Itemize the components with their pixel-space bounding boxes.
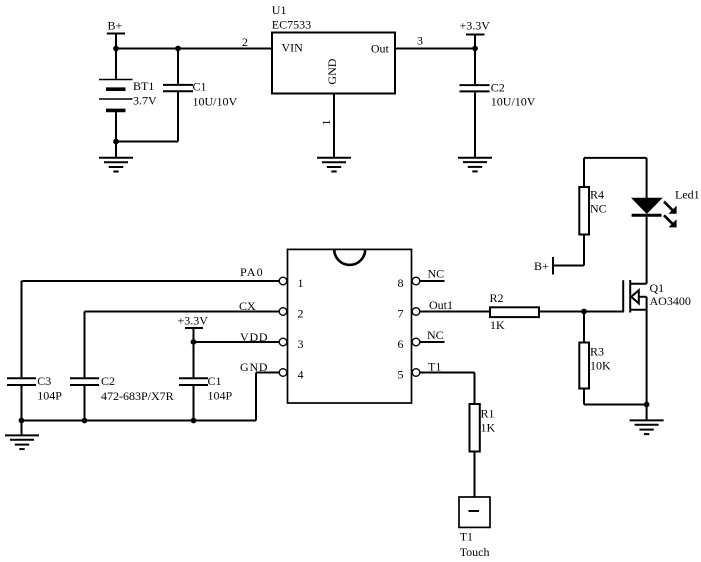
svg-text:R1: R1 xyxy=(481,407,495,421)
svg-text:6: 6 xyxy=(398,337,404,351)
svg-text:472-683P/X7R: 472-683P/X7R xyxy=(101,389,174,403)
wire R3 bottom to source xyxy=(584,404,647,406)
node junction VDD xyxy=(191,339,197,345)
wire ground rail bottom left xyxy=(22,420,257,422)
svg-text:104P: 104P xyxy=(208,389,233,403)
power terminal B+ top xyxy=(107,19,125,49)
svg-text:GND: GND xyxy=(325,58,339,84)
battery BT1 3.7V xyxy=(99,49,157,142)
node junction C1 bottom xyxy=(191,418,197,424)
svg-text:Q1: Q1 xyxy=(650,281,665,295)
svg-text:1K: 1K xyxy=(490,318,505,332)
svg-text:Out1: Out1 xyxy=(429,298,453,312)
svg-text:4: 4 xyxy=(298,368,304,382)
capacitor C3 104P xyxy=(7,374,62,421)
node junction R2 R3 gate xyxy=(581,309,587,315)
svg-text:5: 5 xyxy=(398,368,404,382)
pin 2 circle xyxy=(279,308,287,316)
wire R2 to gate xyxy=(539,311,623,313)
net Out1 wire xyxy=(420,298,490,312)
svg-text:VDD: VDD xyxy=(240,330,268,344)
pin 7 circle xyxy=(412,308,420,316)
svg-text:C3: C3 xyxy=(37,374,51,388)
pin 8 circle xyxy=(412,277,420,285)
resistor R2 1K xyxy=(490,291,540,332)
svg-text:C2: C2 xyxy=(101,374,115,388)
resistor R1 1K xyxy=(470,404,496,497)
svg-text:R4: R4 xyxy=(590,188,604,202)
net VDD wire xyxy=(194,330,280,377)
node junction C2 bottom xyxy=(82,418,88,424)
node junction battery bottom xyxy=(113,139,119,145)
power terminal B+ (bottom right) xyxy=(534,257,584,275)
IC body (8-pin) xyxy=(288,249,412,403)
svg-text:Out: Out xyxy=(371,42,390,56)
svg-text:3: 3 xyxy=(298,337,304,351)
pin 1 circle xyxy=(279,277,287,285)
pin 4 circle xyxy=(279,369,287,377)
wire battery to C1 bottom xyxy=(116,141,178,143)
pin 5 circle xyxy=(412,369,420,377)
ground (battery) xyxy=(99,142,133,172)
capacitor C1 10U/10V (top) xyxy=(163,49,238,142)
svg-text:C2: C2 xyxy=(491,81,505,95)
svg-text:10K: 10K xyxy=(590,359,611,373)
svg-text:NC: NC xyxy=(590,202,607,216)
svg-text:7: 7 xyxy=(398,307,404,321)
svg-text:10U/10V: 10U/10V xyxy=(491,94,536,108)
net CX wire xyxy=(85,299,280,377)
svg-text:BT1: BT1 xyxy=(133,79,154,93)
node junction C1 top xyxy=(175,46,181,52)
svg-text:2: 2 xyxy=(242,35,248,49)
svg-text:EC7533: EC7533 xyxy=(272,18,311,32)
svg-text:R2: R2 xyxy=(490,291,504,305)
touch pad T1 xyxy=(459,497,490,559)
wire R4 LED top rail xyxy=(584,157,647,159)
diode Led1 xyxy=(632,158,700,215)
svg-text:1K: 1K xyxy=(481,421,496,435)
net GND wire xyxy=(240,360,279,421)
svg-text:NC: NC xyxy=(428,267,445,281)
svg-text:8: 8 xyxy=(398,276,404,290)
capacitor C2 472-683P/X7R xyxy=(70,374,174,421)
pin 3 circle xyxy=(279,338,287,346)
regulator U1 EC7533 xyxy=(272,3,395,94)
svg-text:T1: T1 xyxy=(460,530,473,544)
svg-text:1: 1 xyxy=(319,120,333,126)
net T1 wire xyxy=(420,360,475,405)
node junction source ground xyxy=(644,402,650,408)
svg-text:10U/10V: 10U/10V xyxy=(193,95,238,109)
pin 6 circle xyxy=(412,338,420,346)
LED arrow 1 xyxy=(664,202,677,214)
wire B+ rail to U1 VIN xyxy=(116,48,272,50)
svg-text:R3: R3 xyxy=(590,345,604,359)
svg-text:U1: U1 xyxy=(272,3,287,17)
node junction C3 bottom xyxy=(19,418,25,424)
node junction C2 top xyxy=(472,46,478,52)
svg-text:VIN: VIN xyxy=(282,41,304,55)
svg-text:CX: CX xyxy=(239,299,256,313)
transistor Q1 AO3400 MOSFET xyxy=(623,216,691,405)
ground (U1) xyxy=(317,158,351,172)
svg-text:3.7V: 3.7V xyxy=(133,94,157,108)
svg-text:+3.3V: +3.3V xyxy=(460,19,491,33)
net PA0 wire xyxy=(22,265,280,377)
ground (C2) xyxy=(458,158,492,172)
power terminal +3.3V (bottom) xyxy=(178,314,209,343)
svg-text:C1: C1 xyxy=(193,80,207,94)
svg-text:NC: NC xyxy=(427,328,444,342)
svg-text:+3.3V: +3.3V xyxy=(178,314,209,328)
svg-text:B+: B+ xyxy=(534,259,549,273)
svg-text:104P: 104P xyxy=(37,389,62,403)
svg-text:2: 2 xyxy=(298,307,304,321)
svg-text:PA0: PA0 xyxy=(240,265,264,279)
svg-text:AO3400: AO3400 xyxy=(650,294,691,308)
net NC pin 8 xyxy=(420,267,445,282)
svg-text:B+: B+ xyxy=(108,19,123,33)
ground (bottom left) xyxy=(5,421,39,450)
ground (MOSFET source) xyxy=(630,405,664,435)
LED arrow 2 xyxy=(664,215,677,227)
svg-text:GND: GND xyxy=(240,360,268,374)
svg-text:Touch: Touch xyxy=(460,545,490,559)
svg-text:C1: C1 xyxy=(208,374,222,388)
net NC pin 6 xyxy=(420,328,445,342)
svg-text:3: 3 xyxy=(417,34,423,48)
power terminal +3.3V (top) xyxy=(460,19,491,49)
svg-text:1: 1 xyxy=(298,276,304,290)
resistor R3 10K xyxy=(579,312,611,405)
svg-text:Led1: Led1 xyxy=(675,188,700,202)
wire U1 Out to +3.3V node xyxy=(395,48,475,50)
resistor R4 NC xyxy=(579,158,606,266)
capacitor C2 10U/10V xyxy=(460,49,536,158)
capacitor C1 104P (bottom) xyxy=(179,374,233,421)
svg-text:T1: T1 xyxy=(428,360,441,374)
U1 pin 1 wire xyxy=(319,94,334,158)
node junction battery top xyxy=(113,46,119,52)
